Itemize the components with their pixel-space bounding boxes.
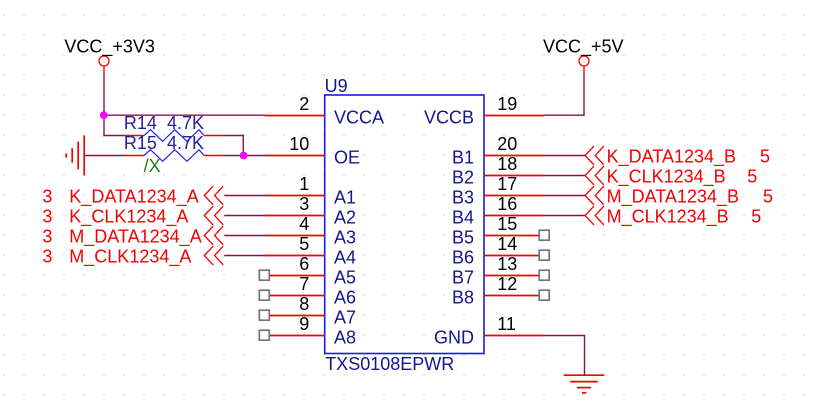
svg-text:5: 5 <box>747 167 757 187</box>
svg-text:B5: B5 <box>452 228 474 248</box>
wire: GND pin 11 to ground <box>544 336 585 376</box>
no-connect square on pin 9 A8 <box>259 330 269 340</box>
svg-text:3: 3 <box>42 247 52 267</box>
R15 labels R15 4.7K <box>124 133 204 153</box>
no-connect square on pin 15 B5 <box>539 230 549 240</box>
svg-text:U9: U9 <box>325 76 348 96</box>
wire: R14 right to node <box>225 135 245 156</box>
no-connect square on pin 12 B8 <box>539 290 549 300</box>
net label K_DATA1234_A with page ref 3 <box>42 187 198 208</box>
pin 14 B6 (right) <box>452 234 539 268</box>
svg-text:9: 9 <box>299 314 309 334</box>
wire: off-page to pin (M_CLK1234_A) <box>224 255 265 257</box>
svg-text:K_DATA1234_B: K_DATA1234_B <box>607 147 736 168</box>
wire: VCC_+3V3 down to junction <box>103 75 105 116</box>
pin 18 B2 (right) <box>452 154 544 188</box>
power symbol VCC_+5V <box>579 56 589 75</box>
pin 13 B7 (right) <box>452 254 539 288</box>
svg-text:VCC_+3V3: VCC_+3V3 <box>64 36 155 57</box>
IC U9 body <box>325 95 484 354</box>
pin 1 A1 (left) <box>265 174 357 208</box>
svg-text:M_DATA1234_A: M_DATA1234_A <box>69 227 201 248</box>
svg-text:B4: B4 <box>452 208 474 228</box>
pin 15 B5 (right) <box>452 214 539 248</box>
net label VCC_+3V3 <box>64 36 155 57</box>
wire: junction down to R14 left <box>103 115 124 136</box>
svg-text:2: 2 <box>299 94 309 114</box>
pin 8 A7 (left) <box>270 294 356 328</box>
resistor R14 <box>125 130 225 142</box>
ground symbol (bottom, on GND pin) <box>564 375 605 393</box>
svg-text:7: 7 <box>299 274 309 294</box>
R14 labels R14 4.7K <box>124 113 204 133</box>
no-connect square on pin 8 A7 <box>259 310 269 320</box>
svg-text:K_CLK1234_A: K_CLK1234_A <box>69 207 188 228</box>
wire: off-page to pin (K_DATA1234_A) <box>224 195 265 197</box>
svg-text:4: 4 <box>299 214 309 234</box>
off-page connector chevrons (M_CLK1234_B) <box>585 206 604 225</box>
net label K_CLK1234_A with page ref 3 <box>42 207 188 228</box>
svg-text:B3: B3 <box>452 188 474 208</box>
svg-text:13: 13 <box>497 254 517 274</box>
svg-text:16: 16 <box>497 194 517 214</box>
svg-text:B6: B6 <box>452 248 474 268</box>
net label M_DATA1234_A with page ref 3 <box>42 227 201 248</box>
off-page connector chevrons (M_CLK1234_A) <box>204 246 223 265</box>
svg-text:6: 6 <box>299 254 309 274</box>
pin 3 A2 (left) <box>265 194 357 228</box>
svg-text:17: 17 <box>497 174 517 194</box>
pin 17 B3 (right) <box>452 174 544 208</box>
pin 9 A8 (left) <box>270 314 356 348</box>
off-page connector chevrons (K_DATA1234_B) <box>585 146 604 165</box>
svg-text:B2: B2 <box>452 168 474 188</box>
svg-text:K_CLK1234_B: K_CLK1234_B <box>607 167 726 188</box>
wire: R15 right to node and on to OE pin 10 <box>225 155 266 157</box>
net label M_DATA1234_B with page ref 5 <box>607 187 773 208</box>
net label M_CLK1234_A with page ref 3 <box>42 247 191 268</box>
net label K_CLK1234_B with page ref 5 <box>607 167 758 188</box>
svg-text:VCCA: VCCA <box>334 108 384 128</box>
pin 7 A6 (left) <box>270 274 356 308</box>
wire: pin to off-page (M_CLK1234_B) <box>544 215 586 217</box>
wire: pin to off-page (M_DATA1234_B) <box>544 195 586 197</box>
svg-text:B8: B8 <box>452 288 474 308</box>
pin 10 OE (left) <box>265 134 361 168</box>
svg-text:3: 3 <box>42 187 52 207</box>
junction dot at OE node <box>240 152 248 160</box>
wire: off-page to pin (K_CLK1234_A) <box>224 215 265 217</box>
no-connect square on pin 13 B7 <box>539 270 549 280</box>
svg-text:14: 14 <box>497 234 517 254</box>
pin 4 A3 (left) <box>265 214 357 248</box>
svg-text:3: 3 <box>299 194 309 214</box>
pin 16 B4 (right) <box>452 194 544 228</box>
svg-text:8: 8 <box>299 294 309 314</box>
svg-text:5: 5 <box>760 147 770 167</box>
svg-text:K_DATA1234_A: K_DATA1234_A <box>69 187 198 208</box>
svg-text:A2: A2 <box>334 208 356 228</box>
svg-text:TXS0108EPWR: TXS0108EPWR <box>325 354 454 374</box>
pin 2 VCCA (left) <box>265 94 385 128</box>
svg-text:11: 11 <box>497 314 516 334</box>
off-page connector chevrons (K_DATA1234_A) <box>204 186 223 205</box>
svg-text:VCC_+5V: VCC_+5V <box>543 36 624 57</box>
power symbol VCC_+3V3 <box>99 56 109 75</box>
resistor R15 <box>125 150 225 162</box>
off-page connector chevrons (K_CLK1234_B) <box>585 166 604 185</box>
svg-text:A7: A7 <box>334 308 356 328</box>
wire: pin to off-page (K_CLK1234_B) <box>544 175 586 177</box>
U9 value label TXS0108EPWR <box>325 354 454 374</box>
ground symbol (left, rotated) <box>66 136 84 176</box>
power-pin marker /X (green) <box>144 156 161 176</box>
wire: VCCB pin 19 to VCC_+5V <box>544 75 585 116</box>
svg-text:3: 3 <box>42 207 52 227</box>
svg-text:B7: B7 <box>452 268 474 288</box>
svg-text:M_CLK1234_B: M_CLK1234_B <box>607 207 729 228</box>
off-page connector chevrons (M_DATA1234_B) <box>585 186 604 205</box>
no-connect square on pin 6 A5 <box>259 270 269 280</box>
svg-text:A6: A6 <box>334 288 356 308</box>
pin 6 A5 (left) <box>270 254 356 288</box>
svg-text:VCCB: VCCB <box>424 108 474 128</box>
wire: left ground to R15 <box>84 155 124 157</box>
no-connect square on pin 7 A6 <box>259 290 269 300</box>
svg-text:A1: A1 <box>334 188 356 208</box>
svg-text:1: 1 <box>299 174 309 194</box>
svg-text:18: 18 <box>497 154 517 174</box>
svg-text:3: 3 <box>42 227 52 247</box>
pin 19 VCCB (right) <box>424 94 544 128</box>
svg-text:A5: A5 <box>334 268 356 288</box>
U9 reference designator <box>325 76 348 96</box>
off-page connector chevrons (K_CLK1234_A) <box>204 206 223 225</box>
svg-text:M_DATA1234_B: M_DATA1234_B <box>607 187 739 208</box>
svg-text:5: 5 <box>299 234 309 254</box>
svg-text:GND: GND <box>434 328 474 348</box>
svg-text:5: 5 <box>751 207 761 227</box>
svg-text:A4: A4 <box>334 248 356 268</box>
svg-text:/X: /X <box>144 156 161 176</box>
svg-text:15: 15 <box>497 214 517 234</box>
pin 11 GND (right) <box>434 314 544 348</box>
net label VCC_+5V <box>543 36 624 57</box>
off-page connector chevrons (M_DATA1234_A) <box>204 226 223 245</box>
svg-text:4.7K: 4.7K <box>167 133 204 153</box>
net label M_CLK1234_B with page ref 5 <box>607 207 762 228</box>
svg-text:5: 5 <box>763 187 773 207</box>
pin 5 A4 (left) <box>265 234 357 268</box>
svg-text:B1: B1 <box>452 148 474 168</box>
svg-text:19: 19 <box>497 94 517 114</box>
pin 20 B1 (right) <box>452 134 544 168</box>
svg-text:20: 20 <box>497 134 517 154</box>
wire: 3V3 rail to VCCA pin 2 <box>103 114 265 116</box>
svg-text:A3: A3 <box>334 228 356 248</box>
svg-text:12: 12 <box>497 274 517 294</box>
net label K_DATA1234_B with page ref 5 <box>607 147 770 168</box>
junction dot at 3V3 rail <box>100 111 108 119</box>
svg-text:A8: A8 <box>334 328 356 348</box>
svg-text:M_CLK1234_A: M_CLK1234_A <box>69 247 191 268</box>
wire: pin to off-page (K_DATA1234_B) <box>544 155 586 157</box>
no-connect square on pin 14 B6 <box>539 250 549 260</box>
wire: off-page to pin (M_DATA1234_A) <box>224 235 265 237</box>
pin 12 B8 (right) <box>452 274 539 308</box>
svg-text:10: 10 <box>289 134 309 154</box>
svg-text:OE: OE <box>334 148 360 168</box>
svg-text:R15: R15 <box>124 133 157 153</box>
